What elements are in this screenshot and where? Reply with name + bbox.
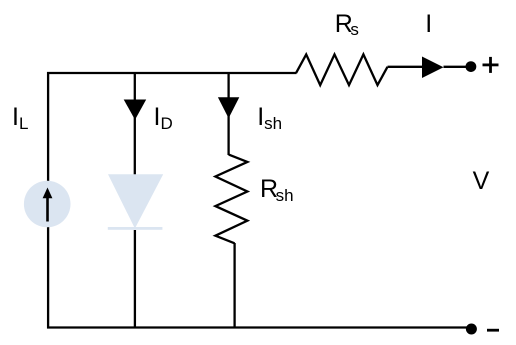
label I <box>425 12 432 37</box>
node terminal plus dot <box>466 61 477 72</box>
wire shunt branch lower <box>233 243 235 329</box>
node terminal minus dot <box>466 324 477 335</box>
arrow Ish <box>218 97 239 118</box>
wire shunt branch upper <box>227 72 229 155</box>
label V <box>473 169 490 194</box>
plus sign <box>483 64 499 67</box>
label Rsh <box>260 177 294 202</box>
resistor Rs zigzag <box>296 54 387 85</box>
diode D triangle <box>108 174 163 228</box>
wire output segment <box>388 66 425 68</box>
wire diode branch lower <box>134 230 136 329</box>
wire bottom horizontal <box>47 326 471 328</box>
diode D cathode bar <box>108 227 163 230</box>
label IL <box>12 105 28 130</box>
wire top horizontal <box>47 72 297 74</box>
arrow I output <box>422 57 444 79</box>
wire left vertical <box>47 72 49 329</box>
wire arrow to terminal <box>444 66 471 68</box>
wire diode branch upper <box>134 72 136 177</box>
label ID <box>154 105 173 130</box>
minus sign <box>487 329 499 332</box>
arrow ID <box>124 100 147 120</box>
resistor Rsh zigzag <box>215 155 247 244</box>
label Rs <box>335 12 359 37</box>
current source IL (circle) <box>24 181 71 228</box>
label Ish <box>257 105 282 130</box>
current source arrow <box>46 197 49 222</box>
